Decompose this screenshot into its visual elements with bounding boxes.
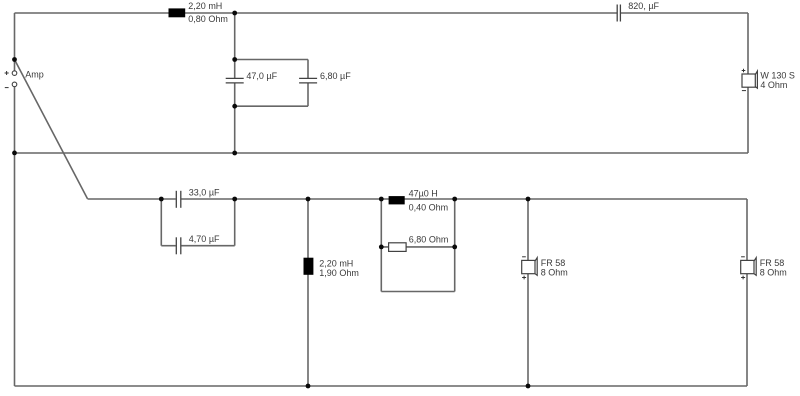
svg-text:2,20 mH: 2,20 mH — [319, 258, 353, 268]
svg-text:8 Ohm: 8 Ohm — [541, 267, 568, 277]
svg-text:33,0 µF: 33,0 µF — [189, 187, 220, 197]
svg-text:6,80 µF: 6,80 µF — [320, 71, 351, 81]
svg-text:6,80 Ohm: 6,80 Ohm — [409, 235, 449, 245]
svg-text:47µ0 H: 47µ0 H — [409, 188, 438, 198]
svg-text:Amp: Amp — [25, 69, 44, 79]
svg-text:47,0 µF: 47,0 µF — [246, 71, 277, 81]
svg-text:4,70 µF: 4,70 µF — [189, 234, 220, 244]
svg-text:820, µF: 820, µF — [628, 1, 659, 11]
svg-text:1,90 Ohm: 1,90 Ohm — [319, 268, 359, 278]
svg-text:W 130 S: W 130 S — [760, 70, 795, 80]
svg-text:0,80 Ohm: 0,80 Ohm — [188, 14, 228, 24]
svg-text:2,20 mH: 2,20 mH — [188, 1, 222, 11]
svg-text:0,40 Ohm: 0,40 Ohm — [409, 203, 449, 213]
svg-text:4 Ohm: 4 Ohm — [760, 80, 787, 90]
svg-text:8 Ohm: 8 Ohm — [760, 267, 787, 277]
